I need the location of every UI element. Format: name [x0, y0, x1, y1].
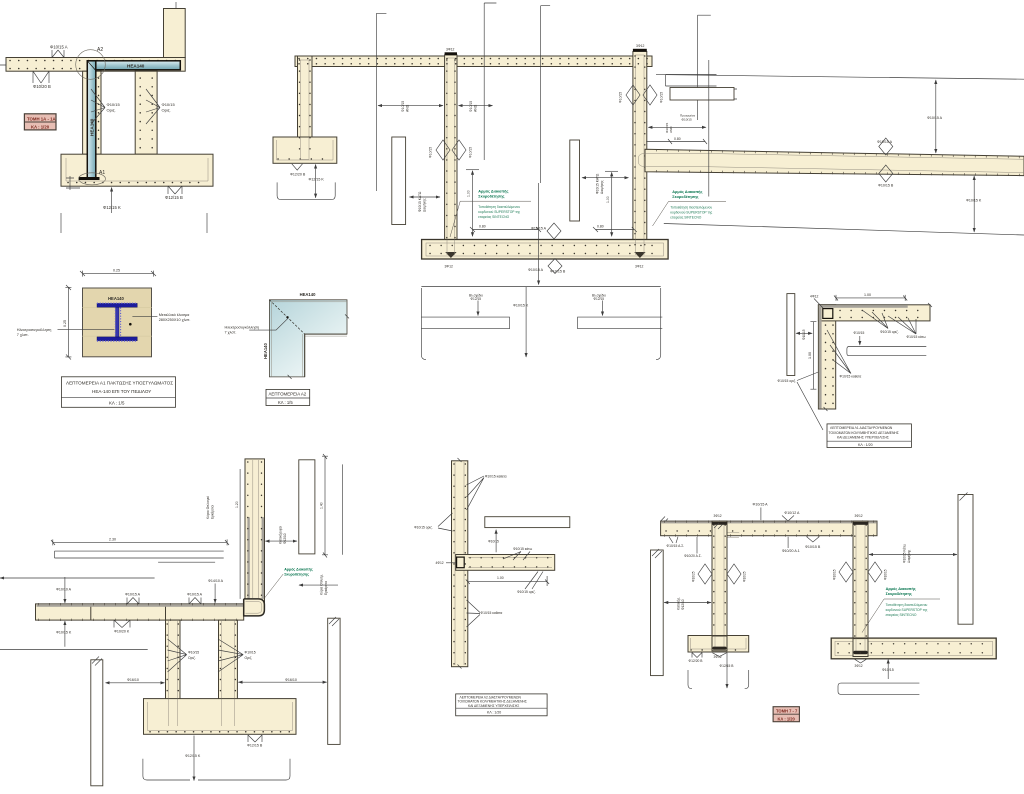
- left wall inner rebar: [301, 60, 310, 158]
- svg-text:Αρμός Διακοπής: Αρμός Διακοπής: [284, 568, 313, 572]
- diamonds left column: [698, 564, 741, 584]
- footing: [144, 699, 297, 735]
- svg-text:Αρμός Διακοπής: Αρμός Διακοπής: [886, 587, 916, 591]
- left column: [712, 521, 727, 647]
- svg-text:Φ10/15 οριζ.: Φ10/15 οριζ.: [517, 590, 536, 594]
- top-right wall above slab: [164, 9, 186, 58]
- center lower line F10/15 K: [525, 287, 527, 357]
- svg-text:ΤΟΙΧΩΜΑΤΩΝ ΚΟΛΥΜΒΗΤΙΚΗΣ ΔΕΞΑΜΕ: ΤΟΙΧΩΜΑΤΩΝ ΚΟΛΥΜΒΗΤΙΚΗΣ ΔΕΞΑΜΕΝΗΣ: [829, 431, 899, 435]
- svg-text:Φ12/10: Φ12/10: [681, 599, 685, 610]
- footing inner line: [66, 158, 208, 181]
- wall dots: [453, 464, 455, 664]
- svg-text:Κύριοι Οπλισμοί: Κύριοι Οπλισμοί: [206, 496, 210, 519]
- svg-text:ΚΑΙ ΔΕΞΑΜΕΝΗΣ ΥΠΕΡΧΕΙΛΙΣΗΣ: ΚΑΙ ΔΕΞΑΜΕΝΗΣ ΥΠΕΡΧΕΙΛΙΣΗΣ: [837, 435, 889, 439]
- svg-text:Αρμός Διακοπής: Αρμός Διακοπής: [478, 190, 508, 194]
- svg-text:ΚΛ : 1/5: ΚΛ : 1/5: [278, 400, 293, 405]
- white notch rect: [847, 347, 926, 356]
- col dots: [166, 624, 168, 698]
- svg-text:κορδονιού SUPERSTOP της: κορδονιού SUPERSTOP της: [886, 608, 928, 612]
- gray band left face: [819, 305, 822, 408]
- wall dots: [825, 325, 827, 405]
- 1.20 dim: [239, 469, 241, 599]
- svg-text:Τοποθέτηση διαστελλόμενου: Τοποθέτηση διαστελλόμενου: [478, 205, 520, 209]
- vertical dim arrow upper: [935, 80, 937, 153]
- left column top cap: [712, 522, 727, 525]
- svg-text:A2: A2: [97, 47, 103, 53]
- svg-text:Φ10/15: Φ10/15: [833, 569, 837, 580]
- svg-text:ΛΕΠΤΟΜΕΡΕΙΑ Λ2 ΔΙΑΣΤΑΥΡΟΥΜΕΝΩΝ: ΛΕΠΤΟΜΕΡΕΙΑ Λ2 ΔΙΑΣΤΑΥΡΟΥΜΕΝΩΝ: [460, 695, 522, 699]
- svg-text:Κύρια Οπλισμ.: Κύρια Οπλισμ.: [320, 574, 324, 595]
- svg-text:Κατακόρ.: Κατακόρ.: [677, 597, 681, 610]
- slab: [818, 305, 930, 321]
- white rect left: [787, 294, 795, 376]
- svg-text:Αρμός Διακοπής: Αρμός Διακοπής: [672, 190, 702, 194]
- corner stirrup: [823, 309, 833, 319]
- base plate: [79, 177, 100, 180]
- svg-text:Φ10/15 Κ: Φ10/15 Κ: [966, 199, 982, 203]
- svg-text:1.00: 1.00: [808, 352, 812, 359]
- svg-text:Φ10/15 Α: Φ10/15 Α: [753, 503, 769, 507]
- svg-text:7 χλστ.: 7 χλστ.: [17, 333, 29, 337]
- svg-text:ΚΛ : 1/20: ΚΛ : 1/20: [778, 716, 796, 721]
- dim arrows top: [378, 105, 443, 107]
- svg-text:Φ10/15: Φ10/15: [802, 329, 806, 340]
- slab edge ticks: [664, 520, 874, 522]
- long ext line 2: [484, 3, 496, 160]
- svg-text:0.80: 0.80: [479, 225, 486, 229]
- svg-text:ΑΝΩ: ΑΝΩ: [669, 126, 673, 133]
- svg-text:Φ10/15: Φ10/15: [107, 102, 121, 107]
- top slab: [661, 521, 877, 536]
- svg-text:1.00: 1.00: [467, 190, 471, 197]
- svg-text:Φ12/15 Β: Φ12/15 Β: [247, 744, 263, 748]
- F16/10 left arrow: [106, 682, 165, 684]
- bottom slab inner: [426, 243, 664, 256]
- svg-text:Φ10/15: Φ10/15: [660, 92, 664, 103]
- svg-text:HEA140: HEA140: [300, 292, 316, 297]
- svg-text:1.00: 1.00: [606, 196, 610, 203]
- miter line: [87, 61, 96, 71]
- open rect below: [55, 551, 224, 558]
- svg-text:3Φ12: 3Φ12: [445, 265, 453, 269]
- svg-text:Φ10/15: Φ10/15: [401, 101, 405, 112]
- I-beam bottom flange: [97, 337, 137, 341]
- svg-text:Φ10/20 Α.Σ.: Φ10/20 Α.Σ.: [684, 554, 702, 558]
- svg-text:Φ10/15 ΚΑΤΩ: Φ10/15 ΚΑΤΩ: [596, 173, 600, 194]
- white rect upper-right: [299, 460, 315, 554]
- svg-text:Φ10/15 Α: Φ10/15 Α: [125, 593, 141, 597]
- svg-text:0.25: 0.25: [63, 320, 67, 327]
- footing label F12/15 K arrow: [315, 165, 317, 198]
- left vert dims: [64, 577, 66, 603]
- wall dots: [247, 462, 249, 596]
- svg-text:Φ10/15: Φ10/15: [854, 331, 865, 335]
- vertical dim arrow lower: [973, 176, 975, 232]
- wall3 bottom anchor: [634, 252, 645, 258]
- svg-text:Φ14/10 Α: Φ14/10 Α: [208, 579, 224, 583]
- left edge tick: [0, 61, 6, 69]
- svg-text:A1: A1: [99, 170, 105, 176]
- svg-text:Φ10/15: Φ10/15: [884, 569, 888, 580]
- svg-text:Φ10/20 Κ: Φ10/20 Κ: [114, 630, 130, 634]
- vert dim 1.00 left: [472, 171, 474, 237]
- white rect left: [651, 550, 664, 676]
- col2: [219, 620, 238, 701]
- footing bracket: [688, 670, 749, 689]
- footing: [61, 154, 213, 186]
- svg-text:Φ12/15 Β: Φ12/15 Β: [165, 195, 183, 200]
- red title TOMH 7-7: [773, 707, 799, 722]
- svg-text:Φ10/15 Α.Σ.: Φ10/15 Α.Σ.: [667, 544, 685, 548]
- svg-text:4Φ12: 4Φ12: [810, 295, 818, 299]
- right column bottom cap: [854, 659, 867, 663]
- wall bottom tick: [824, 407, 828, 411]
- white rect upper: [666, 75, 717, 87]
- horiz arrow: [796, 332, 812, 334]
- red title TOMH 1A-1A: [24, 114, 56, 130]
- svg-text:0.80: 0.80: [597, 225, 604, 229]
- I-beam web: [116, 307, 119, 337]
- long ext line 3: [541, 6, 551, 183]
- svg-text:3Φ12: 3Φ12: [714, 514, 722, 518]
- slab dots: [470, 557, 552, 559]
- bracket below bottom slab: [421, 287, 660, 360]
- svg-text:Φ10/12 Α: Φ10/12 Α: [784, 511, 800, 515]
- corner inner line: [246, 602, 262, 614]
- svg-text:κορδονιού SUPERSTOP της: κορδονιού SUPERSTOP της: [478, 210, 520, 214]
- svg-text:3Φ12: 3Φ12: [636, 44, 644, 48]
- svg-text:Φ10/15 καθετα: Φ10/15 καθετα: [481, 611, 503, 615]
- white rect right: [958, 495, 973, 625]
- svg-text:Φ10/15 Κάτω: Φ10/15 Κάτω: [903, 543, 907, 563]
- svg-text:Φ10/15 Α: Φ10/15 Α: [50, 45, 68, 50]
- black dot: [129, 323, 132, 326]
- slab dots: [299, 58, 650, 60]
- dim arrows left cluster: [648, 126, 706, 128]
- white rect bottom-left: [91, 660, 103, 786]
- bottom guide lines: [61, 213, 207, 233]
- diamonds wall2: [436, 140, 466, 160]
- svg-text:Φ10/25: Φ10/25: [743, 571, 747, 582]
- svg-text:Διαμήκης: Διαμήκης: [907, 549, 911, 563]
- title block L1: [827, 424, 911, 448]
- white rect above: [485, 517, 570, 528]
- white rect R1: [392, 137, 406, 225]
- svg-text:ΚΑΙ ΔΕΞΑΜΕΝΗΣ ΥΠΕΡΧΕΙΛΙΣΗΣ: ΚΑΙ ΔΕΞΑΜΕΝΗΣ ΥΠΕΡΧΕΙΛΙΣΗΣ: [468, 704, 519, 708]
- svg-text:Φ10/15: Φ10/15: [469, 147, 473, 158]
- diamond below slab: [879, 165, 893, 182]
- ellipse A1: [79, 173, 106, 185]
- white rect bottom-right: [328, 618, 340, 744]
- svg-text:Φ12/20 Β: Φ12/20 Β: [290, 173, 306, 177]
- slab right end tick: [928, 303, 932, 307]
- svg-text:3Φ12: 3Φ12: [635, 265, 643, 269]
- svg-text:3Φ12: 3Φ12: [855, 514, 863, 518]
- svg-text:Φ10/15: Φ10/15: [162, 102, 176, 107]
- svg-text:Φ12/20 Β: Φ12/20 Β: [689, 659, 704, 663]
- footing dots: [150, 731, 292, 733]
- left wall: [83, 71, 101, 154]
- svg-text:ΑΝΩ: ΑΝΩ: [474, 104, 478, 112]
- svg-text:Φ10/15 ΚΑΤΩ: Φ10/15 ΚΑΤΩ: [418, 191, 422, 212]
- slab dots: [38, 603, 242, 605]
- svg-text:Φ16/10: Φ16/10: [285, 678, 297, 682]
- long ext line 4: [698, 15, 711, 120]
- svg-text:Φ10/15 κάτω: Φ10/15 κάτω: [513, 547, 533, 551]
- top slab: [295, 56, 652, 67]
- svg-text:Φ10/15: Φ10/15: [188, 651, 199, 655]
- svg-text:ΚΛ : 1/20: ΚΛ : 1/20: [858, 443, 873, 447]
- svg-text:Φ10/15 Α: Φ10/15 Α: [528, 268, 544, 272]
- svg-text:ΛΕΠΤΟΜΕΡΕΙΑ Α1 ΠΑΚΤΩΣΗΣ ΥΠΟΣΤΥ: ΛΕΠΤΟΜΕΡΕΙΑ Α1 ΠΑΚΤΩΣΗΣ ΥΠΟΣΤΥΛΩΜΑΤΟΣ: [66, 381, 173, 386]
- svg-text:Τοποθέτηση διαστελλόμενου: Τοποθέτηση διαστελλόμενου: [670, 206, 712, 210]
- svg-text:Φ10/15 Α: Φ10/15 Α: [531, 226, 547, 230]
- svg-text:1.40: 1.40: [319, 502, 323, 509]
- corner bold rounded: [244, 599, 265, 616]
- svg-text:εταιρείας SINTECNO: εταιρείας SINTECNO: [886, 613, 917, 617]
- svg-text:ΚΛ : 1/20: ΚΛ : 1/20: [487, 711, 501, 715]
- right column top cap: [853, 522, 868, 525]
- svg-text:Φ10/15 Κ: Φ10/15 Κ: [56, 631, 72, 635]
- diamonds right column: [839, 562, 882, 582]
- svg-text:Φ12/15 Κ: Φ12/15 Κ: [103, 205, 121, 210]
- bottom slab outer: [422, 240, 668, 260]
- svg-text:Μεταλλικό έλασμα: Μεταλλικό έλασμα: [159, 313, 190, 317]
- svg-text:Φ10/15: Φ10/15: [488, 539, 499, 543]
- tan footing square: [83, 288, 152, 357]
- dim 1.40: [322, 454, 328, 558]
- weld dots on flanges: [98, 302, 138, 304]
- svg-text:Φ10/15 Κ: Φ10/15 Κ: [513, 304, 529, 308]
- col1: [166, 620, 181, 701]
- left wall: [298, 56, 313, 162]
- svg-text:ΚΛ : 1/5: ΚΛ : 1/5: [109, 401, 125, 406]
- svg-text:HEA140: HEA140: [108, 296, 124, 301]
- circle A2: [76, 50, 106, 80]
- svg-text:Φ10/15: Φ10/15: [469, 101, 473, 112]
- gray band on slab top right part: [37, 604, 263, 607]
- diamond above slab: [547, 223, 561, 239]
- wall ticks: [458, 458, 462, 669]
- long ext line bottom: [664, 224, 1024, 236]
- horiz arrow right: [869, 554, 957, 556]
- F16/10 right arrow: [238, 681, 326, 683]
- top slab: [6, 58, 185, 72]
- long ext line top: [656, 75, 1024, 80]
- svg-text:ΗΕΑ-140 ΕΠΙ ΤΟΥ ΠΕΔΙΛΟΥ: ΗΕΑ-140 ΕΠΙ ΤΟΥ ΠΕΔΙΛΟΥ: [92, 389, 151, 394]
- wall: [245, 459, 265, 604]
- svg-text:Φ10/15 οριζ.: Φ10/15 οριζ.: [414, 525, 433, 529]
- middle wall: [135, 71, 157, 154]
- svg-text:Τοποθέτηση διαστελλόμενου: Τοποθέτηση διαστελλόμενου: [886, 603, 928, 607]
- lap line under slab at column: [711, 533, 739, 538]
- svg-text:4Φ12: 4Φ12: [436, 561, 444, 565]
- wall: [452, 461, 468, 667]
- svg-text:Φ12/10: Φ12/10: [283, 533, 287, 544]
- svg-text:Φ10/15: Φ10/15: [882, 668, 894, 672]
- white rect lower: [670, 88, 734, 101]
- svg-text:Ηλεκτροσυγκόλληση: Ηλεκτροσυγκόλληση: [17, 328, 52, 332]
- svg-text:Οριζ.: Οριζ.: [188, 656, 196, 660]
- svg-text:Διαμήκης: Διαμήκης: [600, 180, 604, 194]
- arrows to inner slabs: [477, 301, 479, 316]
- svg-text:Εγκάρσιοι: Εγκάρσιοι: [324, 581, 328, 595]
- horiz arrow left: [664, 602, 711, 604]
- svg-text:κορδονιού SUPERSTOP της: κορδονιού SUPERSTOP της: [670, 211, 712, 215]
- svg-text:Φ10/15 οριζ.: Φ10/15 οριζ.: [880, 330, 899, 334]
- inner thin lines: [639, 153, 1024, 172]
- slab gray top band: [661, 521, 877, 523]
- svg-text:Φ12/15 Κ: Φ12/15 Κ: [185, 754, 201, 758]
- vert dim 1.00 right: [611, 172, 613, 236]
- end ticks: [288, 314, 349, 379]
- svg-text:Φ10/15 Α: Φ10/15 Α: [187, 593, 203, 597]
- center vertical line: [538, 183, 540, 285]
- stirrup: [457, 557, 465, 568]
- svg-text:3Φ12: 3Φ12: [446, 48, 454, 52]
- svg-text:0.25: 0.25: [113, 269, 120, 273]
- svg-text:Οριζ.: Οριζ.: [162, 108, 171, 113]
- svg-text:Σκυροδέτησης: Σκυροδέτησης: [478, 195, 504, 199]
- svg-text:Φ10/15: Φ10/15: [619, 92, 623, 103]
- svg-text:ΛΕΠΤΟΜΕΡΕΙΑ Λ1 ΔΙΑΣΤΑΥΡΟΥΜΕΝΩΝ: ΛΕΠΤΟΜΕΡΕΙΑ Λ1 ΔΙΑΣΤΑΥΡΟΥΜΕΝΩΝ: [830, 426, 893, 430]
- svg-text:Ηλεκτροσυγκόλληση: Ηλεκτροσυγκόλληση: [225, 326, 260, 330]
- svg-text:Φ10/25: Φ10/25: [692, 571, 696, 582]
- sloped slab: [645, 149, 1024, 175]
- slab dots: [840, 310, 928, 312]
- slab dots: [656, 150, 1024, 157]
- svg-text:2.30: 2.30: [109, 538, 116, 542]
- leader to elasma: [132, 315, 157, 317]
- wall2 center: [445, 55, 457, 254]
- wall gray strips: [247, 517, 249, 599]
- wall2 bottom anchor: [445, 252, 456, 258]
- left footing: [688, 636, 749, 653]
- svg-text:Φ10/15: Φ10/15: [682, 118, 692, 122]
- svg-text:280Χ250Χ10 χλστ.: 280Χ250Χ10 χλστ.: [159, 318, 191, 322]
- right column: [853, 521, 868, 656]
- steel column HEA140: [87, 61, 96, 179]
- svg-text:Εγκάρσιοι: Εγκάρσιοι: [211, 505, 215, 519]
- slab rebar dots: [10, 60, 184, 62]
- diamonds wall3: [626, 85, 657, 105]
- svg-text:ΤΟΜΗ 7 - 7: ΤΟΜΗ 7 - 7: [776, 709, 798, 714]
- wall3 top cap: [633, 49, 647, 52]
- wall inner lines: [253, 460, 258, 598]
- svg-text:1.00: 1.00: [864, 293, 871, 297]
- steel flange HEA140: [87, 61, 180, 70]
- svg-text:1.20: 1.20: [235, 501, 239, 508]
- left dim 0.25: [65, 285, 71, 360]
- wall dots: [139, 78, 141, 150]
- svg-text:Οριζ.: Οριζ.: [107, 108, 116, 113]
- svg-text:Φ10/15 κάτω: Φ10/15 κάτω: [907, 335, 927, 339]
- label F12/15 K with arrow: [111, 188, 113, 214]
- wall dots: [446, 60, 448, 248]
- svg-text:Σκυροδέτησης: Σκυροδέτησης: [886, 592, 912, 596]
- svg-text:Φ12/15: Φ12/15: [471, 297, 482, 301]
- slab: [456, 555, 555, 571]
- left footing: [273, 137, 337, 163]
- svg-text:Σκυροδέτησης: Σκυροδέτησης: [284, 572, 309, 576]
- bottom right slab: [831, 638, 996, 659]
- wall: [818, 305, 835, 409]
- svg-text:HEA140: HEA140: [127, 63, 145, 68]
- long ext line left: [377, 13, 387, 191]
- svg-text:Σκυροδέτησης: Σκυροδέτησης: [672, 195, 698, 199]
- svg-text:Φ10/15 Β: Φ10/15 Β: [805, 545, 821, 549]
- svg-text:Φ10/15 οριζ.: Φ10/15 οριζ.: [778, 379, 797, 383]
- weld dot: [286, 316, 288, 318]
- left dim 1.00: [810, 322, 816, 390]
- wall3 right: [633, 52, 647, 254]
- svg-text:Φ10/15 Β: Φ10/15 Β: [878, 184, 894, 188]
- svg-text:HEA140: HEA140: [263, 343, 268, 359]
- svg-text:Φ16/10: Φ16/10: [127, 678, 139, 682]
- svg-text:Φ10/20 Β: Φ10/20 Β: [33, 84, 51, 89]
- L-shaped steel corner: [269, 300, 347, 377]
- svg-text:Φ10/10 Α: Φ10/10 Α: [56, 588, 72, 592]
- svg-text:Φ12/15 Κ: Φ12/15 Κ: [309, 177, 325, 181]
- I-beam top flange: [97, 303, 137, 307]
- svg-text:Φ10/15 καθετα: Φ10/15 καθετα: [840, 375, 862, 379]
- wall2 top cap: [445, 52, 457, 55]
- svg-text:ΚΛ : 1/20: ΚΛ : 1/20: [31, 124, 50, 129]
- bottom bracket: [143, 759, 290, 780]
- top tick above wall: [175, 2, 177, 8]
- svg-text:ΑΝΩ: ΑΝΩ: [406, 104, 410, 112]
- svg-text:1.00: 1.00: [497, 576, 504, 580]
- inner edge lines: [271, 302, 347, 377]
- title block L2: [456, 694, 547, 716]
- svg-text:3Φ12: 3Φ12: [855, 664, 863, 668]
- footing bracket below: [277, 182, 335, 199]
- faint lines: [83, 308, 152, 337]
- inner slab rects: [421, 317, 662, 329]
- svg-text:Διαμήκης: Διαμήκης: [423, 198, 427, 212]
- svg-text:εταιρείας SINTECNO: εταιρείας SINTECNO: [670, 216, 701, 220]
- svg-text:ΤΟΜΗ 1Α - 1Α: ΤΟΜΗ 1Α - 1Α: [27, 116, 56, 121]
- svg-text:Φ10/15 Α: Φ10/15 Α: [927, 116, 943, 120]
- svg-text:Φ10/15 Α: Φ10/15 Α: [877, 140, 893, 144]
- svg-text:7 χλστ.: 7 χλστ.: [225, 331, 237, 335]
- small dim bottom-left: [66, 176, 80, 190]
- white rect R2: [570, 140, 580, 221]
- svg-text:Φ10/20 Α.1: Φ10/20 Α.1: [782, 549, 800, 553]
- svg-text:0.80: 0.80: [674, 137, 681, 141]
- svg-text:Φ12/15: Φ12/15: [594, 297, 605, 301]
- gray band top face: [819, 305, 908, 308]
- svg-text:εταιρείας SINTECNO: εταιρείας SINTECNO: [478, 215, 509, 219]
- below slab diamond: [806, 537, 819, 543]
- footing dots: [68, 182, 206, 184]
- svg-text:Οριζ.: Οριζ.: [245, 656, 253, 660]
- open bracket below: [838, 683, 919, 694]
- svg-text:Φ10/15: Φ10/15: [245, 651, 256, 655]
- svg-text:ΛΕΠΤΟΜΕΡΕΙΑ Α2: ΛΕΠΤΟΜΕΡΕΙΑ Α2: [269, 392, 307, 397]
- diamond above slab: [879, 138, 893, 155]
- svg-text:Φ10/15: Φ10/15: [429, 147, 433, 158]
- main slab: [36, 604, 244, 620]
- title block A2: [266, 389, 310, 405]
- svg-text:Φ10/15 καθετα: Φ10/15 καθετα: [485, 474, 507, 478]
- title block A1: [61, 377, 175, 408]
- slab joint lines: [91, 604, 166, 620]
- diagonal weld: [269, 300, 304, 334]
- slab left end joint: [711, 521, 713, 536]
- ext vertical line: [708, 60, 710, 197]
